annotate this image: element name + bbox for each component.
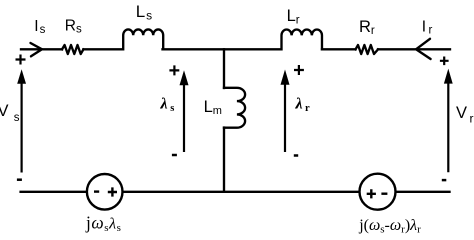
svg-text:Ir: Ir [422, 18, 433, 36]
svg-text:s: s [170, 103, 174, 114]
wire R_r to rotor terminal [378, 48, 450, 50]
svg-text:r: r [470, 112, 474, 126]
minus sign (V_s bottom) [17, 178, 22, 181]
svg-text:r: r [305, 103, 310, 114]
svg-text:Lm: Lm [204, 98, 222, 117]
svg-text:j(ωs-ωr)λr: j(ωs-ωr)λr [358, 217, 421, 236]
wire L_r to R_r [322, 48, 356, 50]
minus sign (lambda_r bottom) [294, 154, 298, 157]
wire between sources through bottom node [123, 191, 360, 193]
plus sign inside U2 [367, 189, 376, 198]
voltage arrow V_r [444, 69, 453, 173]
flux arrow lambda_r [281, 70, 290, 153]
voltage arrow V_s [17, 69, 26, 172]
svg-text:Is: Is [34, 18, 45, 36]
voltage source U1 jw_s lambda_s [87, 174, 123, 210]
svg-text:Lr: Lr [287, 7, 300, 27]
plus sign (V_s top) [16, 55, 26, 65]
voltage source U2 j(ws-wr) lambda_r [360, 174, 396, 210]
current arrow I_s [31, 43, 43, 56]
minus sign (V_r bottom) [442, 179, 447, 182]
minus sign inside U2 [381, 192, 387, 194]
wire top-left stator terminal to R_s [21, 48, 62, 50]
flux arrow lambda_s [180, 70, 189, 152]
wire L_m down to bottom node [223, 128, 225, 192]
resistor R_r [356, 45, 379, 54]
minus sign inside U1 [94, 190, 99, 192]
inductor L_m [224, 88, 245, 128]
plus sign inside U1 [108, 187, 117, 196]
svg-text:V: V [456, 104, 467, 122]
svg-text:V: V [0, 102, 9, 120]
resistor R_s [62, 45, 83, 54]
svg-text:λ: λ [295, 96, 303, 113]
inductor L_s [123, 29, 163, 49]
plus sign (lambda_s top) [169, 65, 179, 75]
wire right source to rotor terminal [396, 191, 450, 193]
wire top node down to L_m [223, 49, 225, 88]
wire bottom-left stator terminal to source [21, 191, 87, 193]
svg-text:jωsλs: jωsλs [85, 212, 121, 234]
plus sign (lambda_r top) [294, 65, 304, 75]
svg-text:Ls: Ls [136, 2, 152, 23]
inductor L_r [282, 29, 322, 49]
current arrow I_r [416, 39, 431, 59]
svg-text:Rr: Rr [359, 18, 375, 37]
svg-text:Rs: Rs [65, 18, 82, 36]
wire L_s to L_r through top node [163, 48, 282, 50]
plus sign (V_r top) [440, 57, 449, 66]
minus sign (lambda_s bottom) [172, 154, 177, 157]
svg-text:λ: λ [160, 95, 168, 112]
svg-text:s: s [14, 112, 20, 124]
wire R_s to L_s [83, 48, 122, 50]
